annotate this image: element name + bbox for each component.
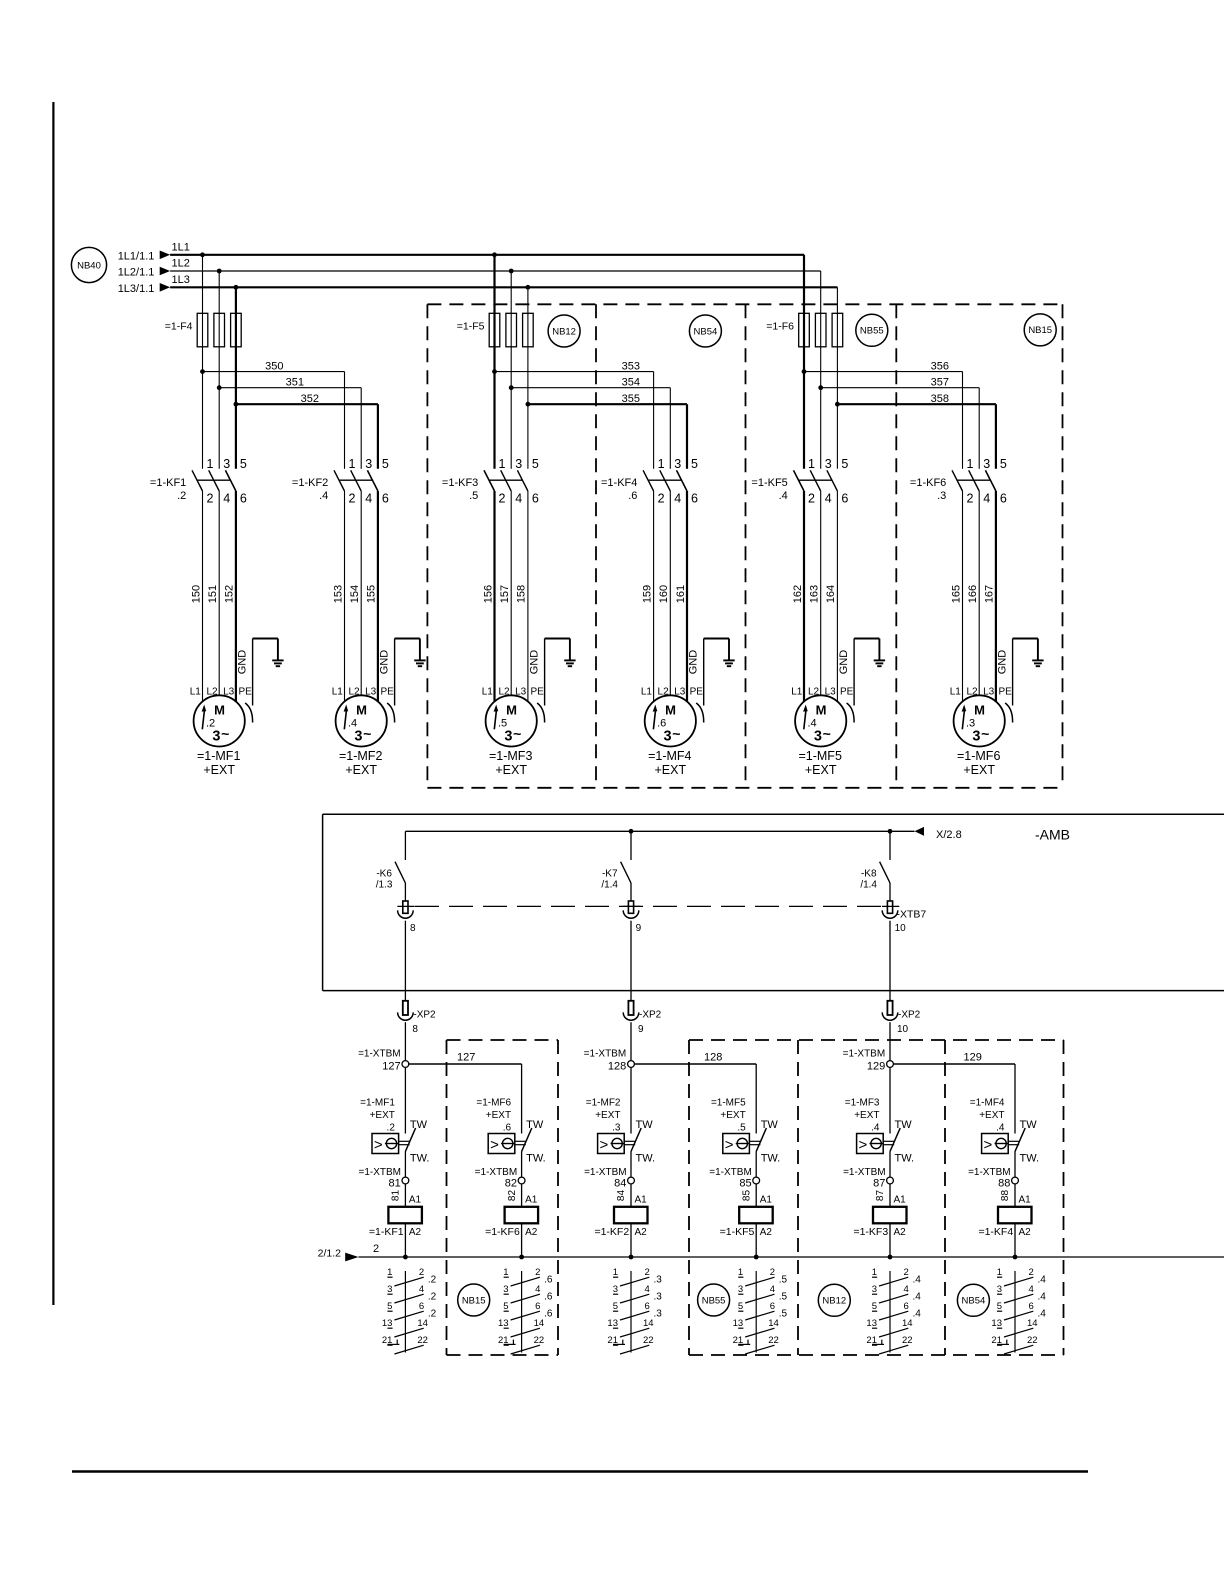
svg-text:/1.4: /1.4 xyxy=(860,880,877,891)
svg-text:2: 2 xyxy=(770,1267,775,1278)
svg-text:L1: L1 xyxy=(190,686,202,697)
terminal -XTB7 pin 9 xyxy=(630,883,632,901)
svg-text:.5: .5 xyxy=(779,1292,788,1303)
wire 351 from =1-F4 to =1-KF2 xyxy=(219,387,361,389)
svg-text:>: > xyxy=(859,1137,868,1154)
svg-text:5: 5 xyxy=(872,1301,877,1312)
dashed divider between MF3 and MF4 groups xyxy=(595,304,597,788)
svg-text:NB54: NB54 xyxy=(962,1296,986,1307)
wire 353 from =1-F5 to =1-KF4 xyxy=(495,371,654,373)
wire coil =1-KF6 A2 to bus 2 xyxy=(521,1223,523,1257)
contactor =1-KF6 .3 xyxy=(952,470,963,491)
svg-text:.4: .4 xyxy=(1038,1275,1047,1286)
terminal =1-XTBM 84 xyxy=(630,1152,632,1178)
svg-text:.3: .3 xyxy=(654,1275,663,1286)
junction on bus 1L1 at =1-F4 xyxy=(200,252,205,257)
svg-text:3: 3 xyxy=(223,457,230,471)
svg-text:81: 81 xyxy=(391,1190,402,1202)
wire =1-XTBM 128 down to TW contact xyxy=(630,1067,632,1133)
svg-text:NB12: NB12 xyxy=(552,326,576,337)
svg-text:351: 351 xyxy=(286,377,304,389)
contact TW of =1-MF4 xyxy=(1008,1140,1019,1142)
svg-text:=1-MF3: =1-MF3 xyxy=(845,1098,880,1109)
arrow reference 2/1.2 xyxy=(345,1253,358,1262)
svg-text:>: > xyxy=(600,1137,609,1154)
svg-text:1: 1 xyxy=(808,457,815,471)
svg-text:-XP2: -XP2 xyxy=(639,1010,662,1021)
svg-text:+EXT: +EXT xyxy=(654,763,686,777)
wire 127 from =1-XTBM 127 to TW branch xyxy=(409,1063,522,1065)
svg-text:22: 22 xyxy=(534,1335,545,1346)
svg-text:=1-KF3: =1-KF3 xyxy=(853,1226,888,1238)
svg-text:-K8: -K8 xyxy=(861,869,877,880)
svg-text:~: ~ xyxy=(823,726,831,742)
page footer rule xyxy=(72,1470,1088,1473)
terminal =1-XTBM 81 xyxy=(404,1152,406,1178)
svg-text:1L3/1.1: 1L3/1.1 xyxy=(118,283,155,295)
svg-text:155: 155 xyxy=(366,585,378,603)
svg-text:153: 153 xyxy=(332,585,344,603)
terminal =1-XTBM 128 xyxy=(628,1061,635,1068)
svg-text:3: 3 xyxy=(997,1284,1002,1295)
svg-text:L1: L1 xyxy=(482,686,494,697)
svg-text:M: M xyxy=(665,703,676,718)
svg-text:>: > xyxy=(374,1137,383,1154)
junction node wire 351 branch xyxy=(217,385,222,390)
svg-text:2: 2 xyxy=(1029,1267,1034,1278)
svg-text:2: 2 xyxy=(499,492,506,506)
wire terminal 85 to coil =1-KF5 A1 xyxy=(755,1184,757,1207)
wire =1-XTBM 127 down to TW contact xyxy=(404,1067,406,1133)
svg-text:=1-MF6: =1-MF6 xyxy=(476,1098,511,1109)
svg-text:=1-KF1: =1-KF1 xyxy=(150,477,186,489)
svg-text:PE: PE xyxy=(239,686,253,697)
wire phase L1 from bus through fuse =1-F6 pole 1 down to contactor =1-KF5 pin 1 xyxy=(803,255,805,469)
svg-text:3: 3 xyxy=(825,457,832,471)
wire phase L2 from bus through fuse =1-F4 pole 2 down to contactor =1-KF1 pin 3 xyxy=(218,271,220,469)
arrow into bus 1L2 xyxy=(160,267,170,276)
svg-text:NB54: NB54 xyxy=(694,326,718,337)
svg-text:8: 8 xyxy=(410,923,416,934)
junction on bus 1L3 at =1-F5 xyxy=(526,285,531,290)
wire phase L3 from bus through fuse =1-F6 pole 3 down to contactor =1-KF5 pin 5 xyxy=(836,287,838,469)
wire GND jog for =1-MF6 xyxy=(1013,638,1038,640)
svg-text:A1: A1 xyxy=(894,1195,907,1206)
svg-text:PE: PE xyxy=(999,686,1013,697)
svg-text:162: 162 xyxy=(792,585,804,603)
svg-text:3: 3 xyxy=(504,729,512,745)
svg-text:NB40: NB40 xyxy=(77,260,101,271)
junction node wire 356 branch xyxy=(802,369,807,374)
fuse =1-F6 pole 1 xyxy=(799,313,810,347)
connector -XP2 pin 10 xyxy=(887,1001,892,1015)
wire -K8 to connector -XP2 xyxy=(889,921,891,1001)
svg-text:L1: L1 xyxy=(641,686,653,697)
svg-text:6: 6 xyxy=(419,1301,424,1312)
svg-text:TW.: TW. xyxy=(895,1153,915,1165)
svg-text:+EXT: +EXT xyxy=(720,1110,745,1121)
svg-text:13: 13 xyxy=(866,1318,877,1329)
dashed divider at KF3/KF4 columns xyxy=(944,1040,946,1355)
wire bus 1L1 xyxy=(170,254,804,256)
svg-text:150: 150 xyxy=(190,585,202,603)
coil =1-KF1 xyxy=(388,1207,422,1224)
svg-text:TW.: TW. xyxy=(1020,1153,1040,1165)
svg-text:+EXT: +EXT xyxy=(805,763,837,777)
svg-text:127: 127 xyxy=(457,1052,475,1064)
svg-text:=1-MF4: =1-MF4 xyxy=(648,749,691,763)
auxiliary contact mirror of =1-KF4 xyxy=(1014,1271,1016,1353)
wire 167 from =1-KF6 pin 6 to motor =1-MF6 L3 xyxy=(995,491,997,702)
svg-text:128: 128 xyxy=(608,1061,626,1073)
svg-text:1: 1 xyxy=(499,457,506,471)
svg-text:164: 164 xyxy=(825,585,837,603)
motor =1-MF5 .4 xyxy=(795,695,846,746)
arrow into bus 1L1 xyxy=(160,251,170,260)
fuse =1-F5 pole 1 xyxy=(489,313,500,347)
svg-text:6: 6 xyxy=(535,1301,540,1312)
dashed enclosure around =1-KF6 column xyxy=(447,1039,559,1041)
wire coil =1-KF3 A2 to bus 2 xyxy=(889,1223,891,1257)
svg-text:14: 14 xyxy=(643,1318,654,1329)
svg-text:X/2.8: X/2.8 xyxy=(936,829,962,841)
wire phase L2 from bus through fuse =1-F5 pole 2 down to contactor =1-KF3 pin 3 xyxy=(510,271,512,469)
svg-text:13: 13 xyxy=(991,1318,1002,1329)
wire 166 from =1-KF6 pin 4 to motor =1-MF6 L2 xyxy=(978,491,980,695)
fuse =1-F5 pole 3 xyxy=(523,313,534,347)
svg-text:.3: .3 xyxy=(654,1309,663,1320)
terminal =1-XTBM 129 xyxy=(887,1061,894,1068)
svg-text:2: 2 xyxy=(658,492,665,506)
motor =1-MF6 rotation arrow xyxy=(962,711,964,730)
junction on bus 2 at =1-KF5 xyxy=(754,1255,759,1260)
wire PE from GND to motor =1-MF1 PE xyxy=(252,639,254,706)
svg-text:-K6: -K6 xyxy=(376,869,392,880)
svg-text:M: M xyxy=(506,703,517,718)
svg-text:TW: TW xyxy=(1020,1119,1038,1131)
svg-text:/1.3: /1.3 xyxy=(376,880,393,891)
svg-text:NB15: NB15 xyxy=(1028,325,1052,336)
svg-text:-AMB: -AMB xyxy=(1035,827,1070,843)
svg-text:+EXT: +EXT xyxy=(979,1110,1004,1121)
motor =1-MF2 rotation arrow xyxy=(344,711,346,730)
svg-text:-XTB7: -XTB7 xyxy=(897,909,927,921)
svg-text:NB55: NB55 xyxy=(860,326,884,337)
svg-text:.2: .2 xyxy=(177,490,186,502)
svg-text:=1-XTBM: =1-XTBM xyxy=(584,1167,627,1178)
svg-text:=1-F5: =1-F5 xyxy=(457,321,485,333)
svg-text:4: 4 xyxy=(365,492,372,506)
svg-text:3: 3 xyxy=(663,729,671,745)
svg-text:3: 3 xyxy=(515,457,522,471)
wire phase L1 from bus through fuse =1-F4 pole 1 down to contactor =1-KF1 pin 1 xyxy=(202,255,204,469)
svg-text:4: 4 xyxy=(1029,1284,1034,1295)
svg-text:GND: GND xyxy=(379,650,391,675)
svg-text:.4: .4 xyxy=(319,490,328,502)
junction on control bus at -K7 xyxy=(629,829,634,834)
svg-text:2: 2 xyxy=(808,492,815,506)
svg-text:M: M xyxy=(356,703,367,718)
svg-text:+EXT: +EXT xyxy=(595,1110,620,1121)
svg-text:13: 13 xyxy=(733,1318,744,1329)
svg-text:=1-MF1: =1-MF1 xyxy=(360,1098,395,1109)
svg-text:22: 22 xyxy=(902,1335,913,1346)
wire 153 from =1-KF2 pin 2 to motor =1-MF2 L1 xyxy=(344,491,346,702)
node circle NB54 xyxy=(689,315,721,347)
svg-text:87: 87 xyxy=(875,1190,886,1202)
svg-text:=1-KF6: =1-KF6 xyxy=(485,1226,520,1238)
svg-text:4: 4 xyxy=(770,1284,775,1295)
svg-text:=1-XTBM: =1-XTBM xyxy=(358,1049,401,1060)
svg-text:=1-F6: =1-F6 xyxy=(766,321,794,333)
svg-text:.6: .6 xyxy=(544,1292,553,1303)
wire control feed bus inside -AMB xyxy=(405,830,914,832)
wire coil =1-KF4 A2 to bus 2 xyxy=(1014,1223,1016,1257)
svg-text:.5: .5 xyxy=(469,490,478,502)
svg-text:TW.: TW. xyxy=(636,1153,656,1165)
svg-text:22: 22 xyxy=(1027,1335,1038,1346)
junction node wire 357 branch xyxy=(818,385,823,390)
svg-text:=1-MF3: =1-MF3 xyxy=(489,749,532,763)
wire 352 from =1-F4 to =1-KF2 xyxy=(236,403,378,405)
wire terminal 82 to coil =1-KF6 A1 xyxy=(521,1184,523,1207)
junction node wire 353 branch xyxy=(492,369,497,374)
svg-text:>: > xyxy=(984,1137,993,1154)
svg-text:TW.: TW. xyxy=(526,1153,546,1165)
svg-text:352: 352 xyxy=(301,393,319,405)
svg-text:PE: PE xyxy=(840,686,854,697)
svg-text:1: 1 xyxy=(872,1267,877,1278)
svg-text:152: 152 xyxy=(224,585,236,603)
wire 155 from =1-KF2 pin 6 to motor =1-MF2 L3 xyxy=(377,491,379,702)
svg-text:.3: .3 xyxy=(937,490,946,502)
ground symbol GND for =1-MF5 xyxy=(874,659,885,661)
svg-text:1L2/1.1: 1L2/1.1 xyxy=(118,267,155,279)
svg-text:158: 158 xyxy=(516,585,528,603)
wire 355 from =1-F5 to =1-KF4 xyxy=(528,403,687,405)
svg-text:PE: PE xyxy=(531,686,545,697)
wire 129 from =1-XTBM 129 to TW branch xyxy=(893,1063,1015,1065)
motor =1-MF2 .4 xyxy=(336,695,387,746)
svg-text:5: 5 xyxy=(1000,457,1007,471)
svg-text:.2: .2 xyxy=(428,1275,437,1286)
wire phase L2 from bus through fuse =1-F6 pole 2 down to contactor =1-KF5 pin 3 xyxy=(820,271,822,469)
junction on bus 2 at =1-KF1 xyxy=(403,1255,408,1260)
svg-text:A1: A1 xyxy=(760,1195,773,1206)
svg-text:1: 1 xyxy=(503,1267,508,1278)
wire GND jog for =1-MF1 xyxy=(253,638,278,640)
motor =1-MF1 rotation arrow xyxy=(202,711,204,730)
svg-text:=1-KF2: =1-KF2 xyxy=(594,1226,629,1238)
svg-text:82: 82 xyxy=(505,1178,517,1190)
contact TW of =1-MF6 xyxy=(515,1140,526,1142)
svg-text:5: 5 xyxy=(387,1301,392,1312)
svg-text:.3: .3 xyxy=(612,1123,621,1134)
svg-text:161: 161 xyxy=(675,585,687,603)
svg-text:-XP2: -XP2 xyxy=(898,1010,921,1021)
svg-text:88: 88 xyxy=(998,1178,1010,1190)
svg-text:2: 2 xyxy=(419,1267,424,1278)
junction node wire 358 branch xyxy=(835,402,840,407)
svg-text:TW: TW xyxy=(410,1119,428,1131)
fuse =1-F6 pole 3 xyxy=(832,313,843,347)
switch -K8 /1.4 xyxy=(889,831,891,860)
svg-text:=1-XTBM: =1-XTBM xyxy=(709,1167,752,1178)
svg-text:356: 356 xyxy=(931,361,949,373)
svg-text:166: 166 xyxy=(967,585,979,603)
svg-text:.3: .3 xyxy=(654,1292,663,1303)
svg-text:.4: .4 xyxy=(871,1123,880,1134)
svg-text:1: 1 xyxy=(613,1267,618,1278)
wire phase L3 from bus through fuse =1-F5 pole 3 down to contactor =1-KF3 pin 5 xyxy=(527,287,529,469)
node circle NB55 xyxy=(856,314,888,346)
svg-text:GND: GND xyxy=(237,650,249,675)
dashed enclosure around =1-KF5 =1-KF3 =1-KF4 columns xyxy=(689,1039,1064,1041)
svg-text:6: 6 xyxy=(904,1301,909,1312)
svg-text:A2: A2 xyxy=(894,1227,907,1238)
svg-text:159: 159 xyxy=(641,585,653,603)
svg-text:5: 5 xyxy=(997,1301,1002,1312)
svg-text:/1.4: /1.4 xyxy=(601,880,618,891)
wire -XP2 to terminal =1-XTBM xyxy=(630,1022,632,1060)
auxiliary contact mirror of =1-KF1 xyxy=(404,1271,406,1353)
svg-text:NB15: NB15 xyxy=(462,1295,486,1306)
svg-text:1: 1 xyxy=(997,1267,1002,1278)
wire 357 from =1-F6 to =1-KF6 xyxy=(821,387,980,389)
svg-text:A1: A1 xyxy=(525,1195,538,1206)
svg-text:+EXT: +EXT xyxy=(495,763,527,777)
svg-text:3: 3 xyxy=(212,729,220,745)
svg-text:128: 128 xyxy=(704,1052,722,1064)
wire GND jog for =1-MF5 xyxy=(854,638,879,640)
coil =1-KF2 xyxy=(614,1207,648,1224)
svg-text:13: 13 xyxy=(382,1318,393,1329)
svg-text:129: 129 xyxy=(964,1052,982,1064)
ground symbol GND for =1-MF3 xyxy=(564,659,575,661)
svg-text:167: 167 xyxy=(984,585,996,603)
svg-text:+EXT: +EXT xyxy=(203,763,235,777)
auxiliary contact mirror of =1-KF5 xyxy=(755,1271,757,1353)
svg-text:6: 6 xyxy=(645,1301,650,1312)
junction node wire 355 branch xyxy=(526,402,531,407)
node circle NB15 xyxy=(458,1284,490,1316)
ground symbol GND for =1-MF1 xyxy=(272,659,283,661)
svg-text:L1: L1 xyxy=(332,686,344,697)
svg-text:+EXT: +EXT xyxy=(486,1110,511,1121)
svg-text:=1-XTBM: =1-XTBM xyxy=(358,1167,401,1178)
fuse =1-F6 pole 2 xyxy=(815,313,826,347)
svg-text:.2: .2 xyxy=(428,1292,437,1303)
fuse =1-F5 pole 2 xyxy=(506,313,517,347)
svg-text:5: 5 xyxy=(738,1301,743,1312)
svg-text:.4: .4 xyxy=(913,1292,922,1303)
wire 350 from =1-F4 to =1-KF2 xyxy=(203,371,345,373)
svg-text:.6: .6 xyxy=(544,1309,553,1320)
svg-text:.4: .4 xyxy=(913,1275,922,1286)
contact TW of =1-MF2 xyxy=(624,1140,635,1142)
fuse =1-F4 pole 1 xyxy=(197,313,208,347)
contactor =1-KF4 .6 xyxy=(643,470,654,491)
wire 160 from =1-KF4 pin 4 to motor =1-MF4 L2 xyxy=(669,491,671,695)
svg-text:.4: .4 xyxy=(779,490,788,502)
svg-text:357: 357 xyxy=(931,377,949,389)
svg-text:1: 1 xyxy=(967,457,974,471)
svg-text:.4: .4 xyxy=(996,1123,1005,1134)
svg-text:=1-XTBM: =1-XTBM xyxy=(843,1049,886,1060)
motor =1-MF4 rotation arrow xyxy=(653,711,655,730)
wire coil =1-KF1 A2 to bus 2 xyxy=(404,1223,406,1257)
svg-text:6: 6 xyxy=(240,492,247,506)
svg-text:=1-MF5: =1-MF5 xyxy=(711,1098,746,1109)
svg-text:358: 358 xyxy=(931,393,949,405)
svg-text:.2: .2 xyxy=(428,1309,437,1320)
svg-text:NB55: NB55 xyxy=(702,1295,726,1306)
svg-text:=1-MF4: =1-MF4 xyxy=(970,1098,1005,1109)
node circle NB12 xyxy=(548,315,580,347)
svg-text:353: 353 xyxy=(622,361,640,373)
svg-text:129: 129 xyxy=(867,1061,885,1073)
wire -XP2 to terminal =1-XTBM xyxy=(889,1022,891,1060)
svg-text:.6: .6 xyxy=(628,490,637,502)
svg-text:=1-MF2: =1-MF2 xyxy=(339,749,382,763)
contact TW of =1-MF3 xyxy=(883,1140,894,1142)
box -AMB enclosure xyxy=(323,813,1224,815)
svg-text:9: 9 xyxy=(638,1024,644,1035)
svg-text:5: 5 xyxy=(240,457,247,471)
junction on bus 2 at =1-KF6 xyxy=(519,1255,524,1260)
wire terminal 88 to coil =1-KF4 A1 xyxy=(1014,1184,1016,1207)
svg-text:1L2: 1L2 xyxy=(172,258,190,270)
svg-text:.5: .5 xyxy=(779,1309,788,1320)
svg-text:157: 157 xyxy=(499,585,511,603)
terminal -XTB7 pin 8 xyxy=(404,883,406,901)
ground symbol GND for =1-MF6 xyxy=(1032,659,1043,661)
svg-text:2: 2 xyxy=(967,492,974,506)
svg-text:4: 4 xyxy=(419,1284,424,1295)
svg-text:3: 3 xyxy=(983,457,990,471)
svg-text:+EXT: +EXT xyxy=(854,1110,879,1121)
wire 151 from =1-KF1 pin 4 to motor =1-MF1 L2 xyxy=(218,491,220,695)
svg-text:4: 4 xyxy=(904,1284,909,1295)
svg-text:5: 5 xyxy=(691,457,698,471)
svg-text:.4: .4 xyxy=(1038,1309,1047,1320)
wire PE from GND to motor =1-MF3 PE xyxy=(544,639,546,706)
svg-text:14: 14 xyxy=(1027,1318,1038,1329)
wire bus 1L3 xyxy=(170,286,837,288)
terminal =1-XTBM 127 xyxy=(402,1061,409,1068)
wire 158 from =1-KF3 pin 6 to motor =1-MF3 L3 xyxy=(527,491,529,702)
wire GND jog for =1-MF3 xyxy=(545,638,570,640)
coil =1-KF6 xyxy=(505,1207,538,1224)
svg-text:GND: GND xyxy=(997,650,1009,675)
svg-text:81: 81 xyxy=(389,1178,401,1190)
svg-text:13: 13 xyxy=(607,1318,618,1329)
svg-text:84: 84 xyxy=(614,1178,626,1190)
svg-text:-K7: -K7 xyxy=(602,869,618,880)
svg-text:160: 160 xyxy=(658,585,670,603)
svg-text:22: 22 xyxy=(643,1335,654,1346)
svg-text:GND: GND xyxy=(688,650,700,675)
wire 159 from =1-KF4 pin 2 to motor =1-MF4 L1 xyxy=(653,491,655,702)
wire PE from GND to motor =1-MF2 PE xyxy=(394,639,396,706)
dashed terminal strip line -XTB7 xyxy=(415,905,883,907)
wire 162 from =1-KF5 pin 2 to motor =1-MF5 L1 xyxy=(803,491,805,702)
auxiliary contact mirror of =1-KF6 xyxy=(521,1271,523,1353)
svg-text:GND: GND xyxy=(529,650,541,675)
node NB40 xyxy=(71,247,106,282)
contactor =1-KF5 .4 xyxy=(794,470,805,491)
dashed divider between MF5 and MF6 groups xyxy=(895,304,897,788)
